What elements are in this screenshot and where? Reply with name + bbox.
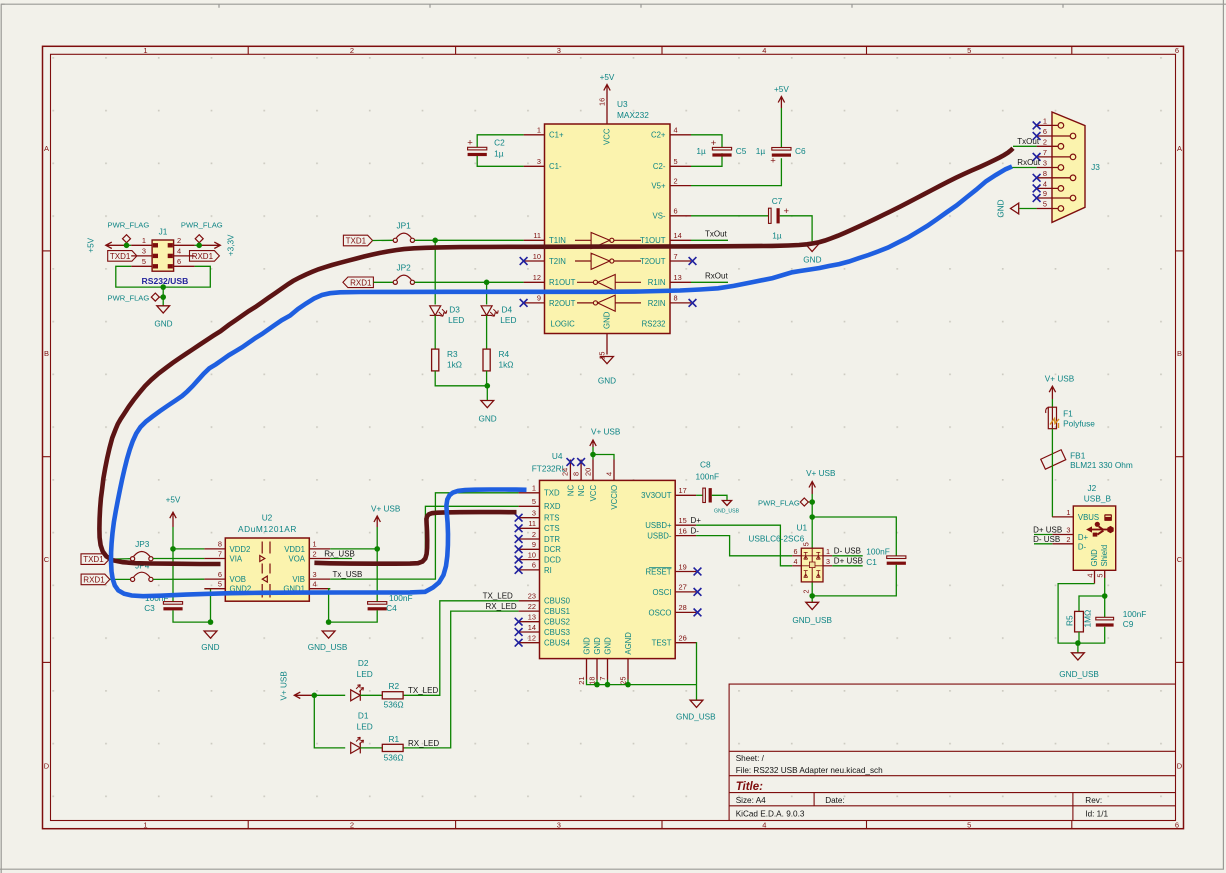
U4 pin 11 CTS (519, 519, 560, 533)
svg-text:GND: GND (582, 637, 591, 655)
svg-text:D2: D2 (358, 658, 369, 668)
svg-text:D- USB: D- USB (1033, 535, 1060, 544)
svg-text:PWR_FLAG: PWR_FLAG (181, 221, 223, 230)
svg-text:9: 9 (532, 540, 536, 549)
svg-text:3: 3 (142, 247, 146, 256)
U4 pin 2 DTR (519, 530, 561, 544)
wire V+USB to F1 (1051, 399, 1053, 407)
svg-text:V+ USB: V+ USB (280, 671, 289, 701)
svg-text:A: A (44, 144, 49, 153)
svg-text:GND: GND (593, 637, 602, 655)
svg-text:+: + (711, 138, 717, 149)
svg-text:1µ: 1µ (756, 146, 766, 156)
U3 pin 14 T1OUT (640, 231, 691, 245)
U4 pin 7 GND (598, 637, 612, 681)
U3 pin 13 R1IN (648, 273, 691, 287)
wire thick RXD route J3-RxOut to U4-TXD (111, 167, 1012, 597)
ground GND_USB at C8 (714, 501, 740, 515)
svg-text:J3: J3 (1091, 162, 1100, 172)
no-connect U4 pin 9 (515, 545, 523, 553)
power V+ USB at U2 VDD1 (371, 504, 401, 527)
svg-text:GND_USB: GND_USB (308, 643, 348, 652)
ferrite bead FB1 (1041, 450, 1133, 470)
U4 pin 26 TEST (652, 634, 697, 648)
svg-text:VCC: VCC (589, 485, 598, 502)
svg-text:T2IN: T2IN (549, 257, 566, 266)
svg-text:TxOut: TxOut (1017, 137, 1040, 146)
diode D3 LED (430, 305, 465, 325)
no-connect U4 pin 13 (515, 618, 523, 626)
wire U3 pin6 VS- to C7 to GND (691, 216, 812, 244)
wire J2 GND to rail (1058, 584, 1094, 644)
wire D4 to R4 (486, 315, 488, 349)
U4 pin 16 USBD- (647, 526, 696, 540)
svg-text:5: 5 (674, 157, 678, 166)
U3 pin 9 R2OUT (524, 294, 576, 308)
resistor R5 1M (1064, 610, 1092, 632)
svg-text:28: 28 (679, 603, 687, 612)
svg-text:536Ω: 536Ω (384, 752, 404, 762)
U1 pin 3 D+ USB (823, 557, 832, 566)
svg-text:TXD1: TXD1 (83, 555, 104, 564)
svg-text:9: 9 (1043, 189, 1047, 198)
svg-text:2: 2 (532, 530, 536, 539)
no-connect U4 pin 11 (515, 524, 523, 532)
wire V+USB down to U1 pin5 (811, 494, 813, 548)
junction U1 top rail (809, 514, 815, 520)
svg-text:4: 4 (177, 247, 181, 256)
U3 pin 5 C2- (653, 157, 691, 171)
U4 pin 23 CBUS0 (519, 592, 571, 606)
svg-text:RI: RI (544, 566, 552, 575)
U1 pin 1 D- USB (823, 547, 832, 556)
U3 pin 10 T2IN (524, 252, 566, 266)
junction J1 pin2 (196, 243, 202, 249)
svg-text:VOB: VOB (230, 575, 246, 584)
svg-text:GND: GND (1090, 549, 1099, 567)
svg-text:2: 2 (350, 46, 354, 55)
svg-text:1: 1 (143, 46, 147, 55)
U4 pin 14 CBUS3 (519, 623, 570, 637)
J3 pin 4 (1037, 179, 1064, 191)
U4 pin 28 OSCO (649, 603, 697, 617)
global label RXD1 at JP4 (81, 574, 110, 585)
svg-text:OSCI: OSCI (652, 588, 671, 597)
junction C3 GND rail (208, 619, 214, 625)
U3 pin 7 T2OUT (640, 252, 691, 266)
U1 internal diodes (801, 548, 823, 582)
wire U2 VOA stub (330, 558, 352, 560)
no-connect U4 pin 3 (515, 514, 523, 522)
svg-text:+3,3V: +3,3V (227, 234, 236, 256)
svg-text:1µ: 1µ (772, 231, 782, 241)
svg-text:DCR: DCR (544, 545, 561, 554)
svg-text:GND_USB: GND_USB (714, 508, 740, 514)
no-connect U4 pin 10 (515, 556, 523, 564)
svg-text:D+ USB: D+ USB (834, 557, 863, 566)
svg-text:VDD2: VDD2 (230, 545, 251, 554)
svg-text:R1: R1 (389, 734, 400, 744)
svg-text:3: 3 (532, 509, 536, 518)
svg-text:1: 1 (1043, 116, 1047, 125)
svg-text:T1OUT: T1OUT (640, 236, 666, 245)
U1 pin 4 (792, 557, 801, 566)
wire JP2 to U3 R1OUT (415, 281, 524, 283)
svg-text:4: 4 (674, 126, 678, 135)
wire thick Rx route U2-VOA to U4-RXD (314, 512, 516, 564)
wire R3 to GND rail (435, 371, 487, 386)
U4 pin 15 USBD+ (645, 516, 696, 530)
capacitor C9 100nF (1096, 609, 1147, 629)
svg-text:D: D (44, 762, 50, 771)
svg-text:Polyfuse: Polyfuse (1063, 418, 1095, 428)
svg-text:C1: C1 (866, 557, 877, 567)
svg-text:USBD+: USBD+ (645, 521, 672, 530)
svg-text:V+ USB: V+ USB (591, 428, 621, 437)
wire D3 to R3 (434, 315, 436, 349)
wire D4 branch down (486, 282, 488, 304)
no-connect U4 pin 6 (515, 566, 523, 574)
junction C4 GND_USB rail (326, 619, 332, 625)
no-connect J3 pin 7 (1033, 153, 1041, 161)
svg-text:13: 13 (528, 613, 536, 622)
no-connect U4 pin 19 (694, 568, 702, 576)
J3 pin 5 (1037, 200, 1064, 212)
connector J1 body (152, 240, 174, 271)
svg-text:3: 3 (537, 157, 541, 166)
wire TxOut to J3 pin2 (1013, 145, 1037, 147)
no-connect U4 pin 27 (694, 588, 702, 596)
no-connect U4 pin 2 (515, 535, 523, 543)
wire F1 to FB1 (1051, 429, 1053, 449)
power V+ USB at J2 (1045, 374, 1075, 399)
svg-text:RXD1: RXD1 (83, 575, 105, 584)
power V+ USB at U1 (806, 469, 836, 494)
svg-text:26: 26 (679, 634, 687, 643)
svg-text:1µ: 1µ (494, 148, 504, 158)
wire D- USB to J2 pin2 (1034, 543, 1052, 545)
op-amp U3 MAX232 body (545, 124, 671, 334)
svg-text:10: 10 (528, 550, 536, 559)
wire D+ USB to J2 pin3 (1034, 534, 1052, 536)
no-connect J3 pin 9 (1033, 194, 1041, 202)
svg-text:TXD1: TXD1 (346, 237, 367, 246)
svg-text:TXD1: TXD1 (110, 252, 131, 261)
svg-text:T1IN: T1IN (549, 236, 566, 245)
svg-text:6: 6 (674, 207, 678, 216)
resistor R4 1k (483, 349, 513, 371)
svg-text:C4: C4 (386, 603, 397, 613)
junction JP1 D3 branch (432, 238, 438, 244)
svg-text:3: 3 (1066, 526, 1070, 535)
svg-text:5: 5 (1043, 200, 1047, 209)
svg-text:U4: U4 (552, 451, 563, 461)
svg-text:GND: GND (154, 319, 172, 328)
svg-text:A: A (1177, 144, 1182, 153)
svg-text:File: RS232 USB Adapter neu.ki: File: RS232 USB Adapter neu.kicad_sch (736, 766, 883, 775)
svg-text:1kΩ: 1kΩ (499, 360, 514, 370)
svg-text:5: 5 (532, 497, 536, 506)
svg-text:JP3: JP3 (135, 539, 150, 549)
svg-text:D: D (1177, 762, 1183, 771)
svg-text:6: 6 (1175, 820, 1179, 829)
junction D2 D1 branch (312, 693, 318, 699)
svg-text:VDD1: VDD1 (284, 545, 305, 554)
svg-text:USB_B: USB_B (1084, 494, 1112, 504)
wire D1 to R1 (360, 747, 382, 749)
svg-text:RS232/USB: RS232/USB (142, 276, 189, 286)
svg-text:CBUS2: CBUS2 (544, 618, 570, 627)
svg-text:6: 6 (794, 547, 798, 556)
resistor R1 536 (382, 734, 403, 762)
svg-text:3: 3 (557, 46, 561, 55)
no-connect U4 pin 28 (694, 609, 702, 617)
svg-text:JP1: JP1 (397, 220, 412, 230)
junction R5 GND rail (1075, 640, 1081, 646)
svg-text:Rev:: Rev: (1085, 796, 1102, 805)
wire RxOut to J3 pin3 (1012, 167, 1037, 169)
svg-text:TEST: TEST (652, 639, 672, 648)
svg-text:CTS: CTS (544, 524, 560, 533)
svg-text:2: 2 (350, 820, 354, 829)
wire J1 pin1 +5V rail (127, 244, 132, 246)
svg-text:RXD: RXD (544, 502, 561, 511)
svg-text:11: 11 (533, 231, 541, 240)
power V+ USB at U4 VCC (590, 428, 621, 447)
svg-text:5: 5 (967, 820, 971, 829)
svg-text:C1-: C1- (549, 162, 562, 171)
U2 pin 7 VIA (204, 549, 242, 563)
svg-text:T2OUT: T2OUT (640, 257, 666, 266)
wire VCC VCCIO rail (593, 447, 614, 460)
svg-text:Tx_USB: Tx_USB (333, 570, 363, 579)
svg-text:23: 23 (528, 592, 536, 601)
J1 pins 1/2 (131, 236, 194, 247)
junction +5V VDD2 (170, 546, 176, 552)
svg-text:8: 8 (674, 294, 678, 303)
isolator U2 ADuM1201AR body (225, 538, 309, 601)
resistor R3 1k (432, 349, 462, 371)
U3 pin 3 C1- (524, 157, 562, 171)
svg-text:TxOut: TxOut (705, 230, 728, 239)
global label RXD1 at JP2 (343, 277, 374, 288)
svg-text:AGND: AGND (624, 632, 633, 655)
wire U4 TEST to GND rail (695, 643, 697, 685)
svg-text:1µ: 1µ (696, 146, 706, 156)
wire U4 CBUS1 RX_LED (403, 611, 518, 748)
U4 pin 22 CBUS1 (519, 602, 570, 616)
svg-text:7: 7 (674, 252, 678, 261)
no-connect U4 pin 24 (567, 458, 575, 466)
wire J1 pin2 +3,3V rail (195, 244, 200, 246)
svg-text:CBUS1: CBUS1 (544, 607, 570, 616)
svg-text:F1: F1 (1063, 409, 1073, 419)
svg-text:J2: J2 (1088, 483, 1097, 493)
capacitor C6 1u (770, 148, 791, 167)
wire U4 ground rail (587, 680, 697, 701)
svg-text:D+: D+ (1078, 533, 1089, 542)
svg-text:PWR_FLAG: PWR_FLAG (758, 499, 800, 508)
junction U4 GND pins (594, 682, 631, 688)
svg-text:4: 4 (794, 557, 798, 566)
svg-text:C8: C8 (700, 460, 711, 470)
ground GND at U3 pin15 (598, 357, 616, 386)
wire C9 branch (1078, 596, 1105, 643)
no-connect J3 pin 6 (1033, 132, 1041, 140)
svg-text:V+ USB: V+ USB (806, 469, 836, 478)
svg-text:+: + (467, 138, 473, 149)
svg-text:C: C (1177, 555, 1183, 564)
global label TXD1 at J1 pin3 (108, 251, 137, 262)
wire C3 to GND rail (173, 610, 211, 622)
power flag PWR_FLAG at J1 pin2 (181, 221, 223, 246)
svg-text:5: 5 (967, 46, 971, 55)
svg-text:VIB: VIB (292, 575, 305, 584)
svg-text:B: B (1177, 349, 1182, 358)
svg-text:C2: C2 (494, 137, 505, 147)
wire D2 to R2 (360, 694, 382, 696)
jumper JP3 (131, 539, 153, 561)
svg-text:Shield: Shield (1100, 545, 1109, 567)
jumper JP2 (393, 262, 414, 284)
U2 isolation barrier (260, 542, 270, 598)
svg-text:1kΩ: 1kΩ (447, 360, 462, 370)
junction U4 VCC (590, 452, 596, 458)
junction U1 PWR_FLAG (809, 499, 815, 505)
wire V+USB to VDD1 and C4 (330, 527, 377, 602)
svg-text:5: 5 (142, 257, 146, 266)
no-connect U3 pin 7 (689, 257, 697, 265)
U3 pin 15 GND (598, 311, 612, 359)
capacitor C4 100nF (368, 593, 413, 613)
U4 pin 19 RESET (646, 562, 697, 576)
ground GND at R3 R4 (478, 401, 496, 424)
svg-text:4: 4 (313, 580, 317, 589)
wire V+USB to D2 (314, 694, 345, 696)
U3 pin 2 V5+ (651, 176, 691, 190)
svg-text:V+ USB: V+ USB (1045, 374, 1075, 383)
svg-text:Size: A4: Size: A4 (736, 796, 766, 805)
svg-text:C7: C7 (772, 196, 783, 206)
wire TXD1 to JP1 (373, 239, 394, 241)
svg-text:C9: C9 (1123, 619, 1134, 629)
svg-text:R5: R5 (1064, 615, 1074, 626)
U2 pin 3 VIB (292, 570, 330, 584)
svg-text:4: 4 (604, 472, 613, 476)
U4 pin 18 GND (588, 637, 602, 685)
svg-text:VCC: VCC (603, 128, 612, 145)
wire U2 VIB to U4 TXD (330, 493, 518, 579)
svg-text:1: 1 (313, 540, 317, 549)
svg-text:OSCO: OSCO (649, 608, 672, 617)
ground GND_USB at R5 (1059, 653, 1099, 679)
J3 pin 1 (1037, 116, 1064, 128)
svg-text:GND_USB: GND_USB (792, 616, 832, 625)
U4 pin 25 AGND (619, 632, 633, 685)
svg-text:B: B (44, 349, 49, 358)
svg-text:4: 4 (1043, 179, 1047, 188)
U3 pin 12 R1OUT (524, 273, 576, 287)
svg-text:2: 2 (1043, 137, 1047, 146)
svg-text:LED: LED (500, 315, 516, 325)
svg-text:21: 21 (577, 677, 586, 685)
ground GND at J3 pin5 (996, 199, 1018, 217)
diode D1 LED (351, 711, 373, 754)
wire J2 shield down (1104, 578, 1106, 596)
svg-text:2: 2 (177, 236, 181, 245)
power +3,3V at J1 (199, 234, 235, 256)
U3 inverter buffer R1 (577, 275, 641, 291)
U2 pin 4 GND1 (283, 580, 330, 594)
svg-text:R2OUT: R2OUT (549, 299, 576, 308)
wire FB1 to J2 VBUS (1051, 449, 1053, 517)
svg-text:V5+: V5+ (651, 182, 666, 191)
svg-text:RXD1: RXD1 (192, 252, 214, 261)
no-connect J3 pin 1 (1033, 122, 1041, 130)
wire shield to R5 (1079, 596, 1105, 611)
U3 pin 6 VS- (653, 207, 692, 221)
svg-text:NC: NC (577, 485, 586, 497)
wire C1 to U1 bottom rail (812, 565, 896, 596)
svg-text:14: 14 (674, 231, 682, 240)
U4 pin 3 RTS (519, 509, 560, 523)
svg-text:+: + (784, 206, 790, 217)
wire RXD1 to JP2 (373, 281, 393, 283)
svg-text:100nF: 100nF (696, 472, 720, 482)
wire C2 to U3 pins 1,3 (477, 135, 523, 167)
svg-text:12: 12 (528, 634, 536, 643)
junction J1 bottom (160, 284, 166, 290)
svg-text:RX_LED: RX_LED (486, 602, 517, 611)
svg-text:D1: D1 (358, 711, 369, 721)
svg-text:PWR_FLAG: PWR_FLAG (108, 294, 150, 303)
svg-text:NC: NC (566, 485, 575, 497)
wire V+USB branch down to D1 (314, 695, 345, 748)
power +5V at C6 (774, 85, 789, 108)
svg-text:D+: D+ (691, 516, 702, 525)
capacitor C2 1u (467, 138, 487, 157)
svg-text:+5V: +5V (166, 496, 181, 505)
svg-text:RXD1: RXD1 (350, 278, 372, 287)
J3 pin 7 (1037, 148, 1076, 160)
svg-text:16: 16 (598, 98, 607, 106)
U2 pin 6 VOB (204, 570, 246, 584)
svg-text:TX_LED: TX_LED (408, 686, 438, 695)
svg-text:6: 6 (1175, 46, 1179, 55)
wire JP3 to U2 VIA (153, 558, 204, 560)
svg-text:6: 6 (532, 561, 536, 570)
svg-text:6: 6 (218, 570, 222, 579)
J2 pin 4 GND (1085, 549, 1099, 584)
wire J1 bottom to GND (162, 287, 164, 306)
wire U1 top rail to C1 (812, 517, 896, 556)
ground GND_USB at C4 (308, 631, 348, 652)
wire RXD1 to JP4 (110, 578, 131, 580)
svg-text:+5V: +5V (87, 237, 96, 252)
wire GND to J3 pin5 (1019, 208, 1036, 210)
svg-text:R1IN: R1IN (648, 278, 666, 287)
U4 pin 1 TXD (519, 484, 560, 498)
wire U1 pin1 stub (832, 555, 862, 557)
svg-text:19: 19 (679, 562, 687, 571)
junction J1 pin1 (124, 243, 130, 249)
svg-text:D+ USB: D+ USB (1033, 525, 1062, 534)
svg-text:CBUS0: CBUS0 (544, 597, 571, 606)
svg-text:U2: U2 (262, 512, 273, 522)
J3 pin 6 (1037, 127, 1076, 139)
U1 pin 6 (792, 547, 801, 556)
svg-text:C: C (44, 555, 50, 564)
